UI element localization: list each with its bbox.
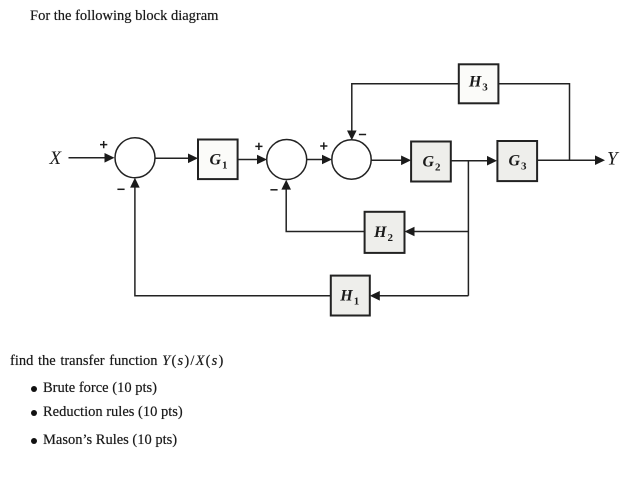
svg-text:2: 2	[435, 162, 441, 174]
block H1	[331, 276, 370, 316]
arrowhead into sum3	[322, 155, 332, 165]
title text	[30, 8, 218, 25]
svg-text:2: 2	[388, 232, 394, 244]
block H3	[459, 64, 499, 103]
wire G1 to sum2	[238, 159, 260, 161]
wire G2 to G3	[451, 160, 490, 162]
arrowhead into Y	[595, 155, 605, 165]
svg-text:H: H	[373, 224, 387, 241]
bullet Reduction rules	[43, 404, 183, 421]
arrowhead into H1	[370, 291, 380, 301]
svg-text:H: H	[468, 74, 482, 91]
wire tap after G3 up to H3 input	[497, 84, 570, 161]
wire sum3 to G2	[371, 159, 404, 161]
svg-text:Y: Y	[607, 149, 620, 170]
wire sum2 to sum3	[307, 159, 325, 161]
summing junction sum3	[332, 140, 371, 179]
bullet dot 1	[31, 386, 37, 392]
arrowhead up into sum1 bottom	[130, 178, 140, 188]
arrowhead into sum1	[105, 153, 115, 163]
wire X to sum1	[69, 157, 108, 159]
bullet dot 3	[31, 438, 37, 444]
summing junction sum2	[267, 140, 307, 180]
plus sign at sum3 input	[320, 142, 327, 149]
svg-text:G: G	[509, 153, 521, 170]
wire into H1	[376, 295, 468, 297]
block H2	[365, 212, 405, 253]
arrowhead into sum2	[257, 155, 267, 165]
wire H1 output to sum1 bottom	[135, 184, 331, 296]
wire sum1 to G1	[155, 157, 191, 159]
svg-text:X: X	[49, 148, 63, 169]
svg-text:3: 3	[482, 82, 488, 94]
bullet Brute force	[43, 380, 157, 397]
bullet Mason's Rules	[43, 432, 177, 449]
arrowhead into G3	[487, 156, 497, 166]
svg-text:1: 1	[354, 296, 360, 308]
svg-text:1: 1	[222, 160, 228, 172]
svg-text:3: 3	[521, 161, 527, 173]
minus sign at sum1 feedback	[117, 188, 124, 190]
plus sign at sum1 input	[100, 141, 107, 148]
arrowhead up into sum2 bottom	[281, 180, 291, 190]
wire H3 output to sum3 top	[352, 84, 458, 133]
minus sign at sum2 feedback	[270, 189, 277, 191]
wire tap after G2 down for H2 and H1	[467, 161, 469, 296]
block G1	[198, 140, 238, 180]
block G3	[497, 141, 537, 181]
arrowhead into G1	[188, 154, 198, 164]
arrowhead down into sum3 top	[347, 131, 357, 141]
svg-text:G: G	[423, 154, 435, 171]
svg-text:H: H	[339, 288, 353, 305]
plus sign at sum2 input	[255, 143, 262, 150]
wire into H2	[411, 231, 468, 233]
arrowhead into H2	[405, 227, 415, 237]
wire G3 to Y	[537, 159, 598, 161]
svg-text:G: G	[210, 152, 222, 169]
transfer function text	[10, 353, 225, 370]
block G2	[411, 142, 451, 182]
wire H2 output to sum2 bottom	[286, 186, 364, 232]
bullet dot 2	[31, 410, 37, 416]
minus sign at sum3 feedback	[359, 134, 366, 136]
arrowhead into G2	[401, 156, 411, 166]
summing junction sum1	[115, 138, 155, 178]
